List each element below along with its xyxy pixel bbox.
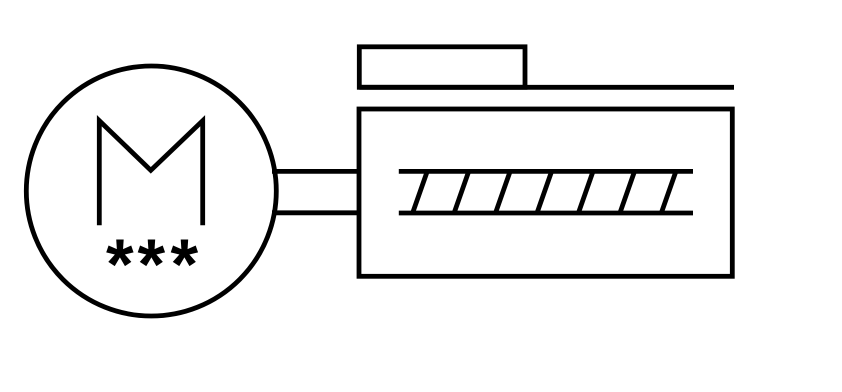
feed hopper rectangle bbox=[359, 47, 525, 88]
screw flight hatch 2 bbox=[454, 171, 469, 213]
screw flight hatch 5 bbox=[578, 171, 593, 213]
svg-text:*: * bbox=[137, 226, 165, 305]
motor M1 body circle bbox=[26, 66, 276, 316]
motor letter M bbox=[99, 121, 202, 226]
screw flight hatch 3 bbox=[496, 171, 511, 213]
shaft coupling bottom line bbox=[272, 210, 359, 215]
screw flight hatch 4 bbox=[537, 171, 552, 213]
screw flight hatch 1 bbox=[413, 171, 428, 213]
svg-text:*: * bbox=[170, 226, 198, 305]
screw top line bbox=[399, 169, 693, 174]
extruder barrel rectangle bbox=[359, 109, 732, 276]
screw flight hatch 6 bbox=[620, 171, 635, 213]
shaft coupling top line bbox=[272, 169, 359, 174]
barrel top cover line bbox=[359, 85, 734, 90]
screw flight hatch 7 bbox=[661, 171, 676, 213]
screw bottom line bbox=[399, 211, 693, 216]
svg-text:*: * bbox=[106, 226, 134, 305]
